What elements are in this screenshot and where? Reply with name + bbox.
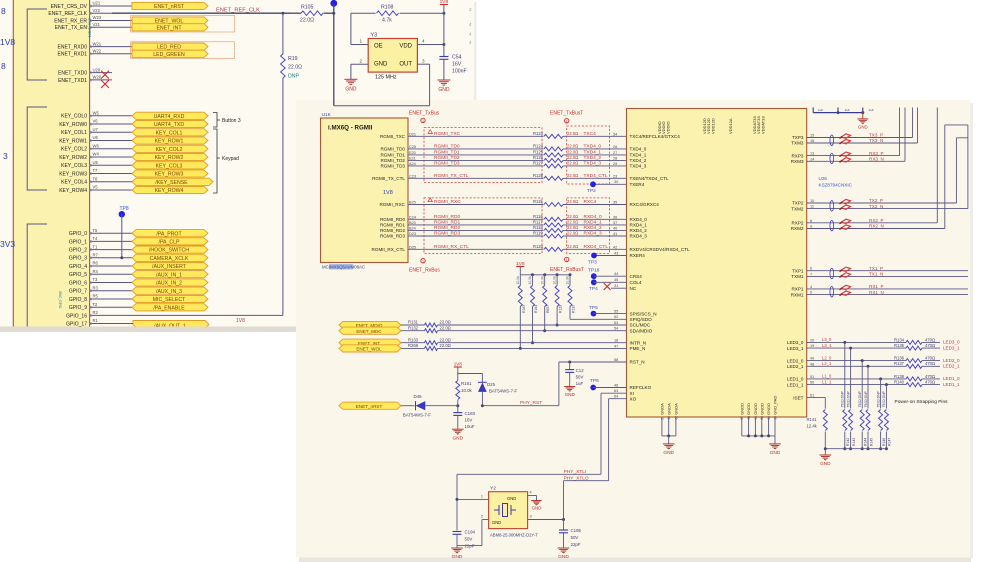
svg-text:GPIO_4: GPIO_4 bbox=[69, 264, 87, 270]
diff pair TX3_P/TX3_N wires from U26 bbox=[807, 137, 868, 139]
svg-text:D45: D45 bbox=[414, 394, 423, 399]
wire TX3_P to top bbox=[868, 137, 913, 139]
svg-text:CRS4: CRS4 bbox=[630, 274, 643, 279]
svg-text:16: 16 bbox=[810, 139, 814, 143]
wire RX1_P to sheet edge bbox=[868, 288, 968, 290]
svg-text:ENET_WOL: ENET_WOL bbox=[356, 347, 382, 352]
svg-text:L2_1: L2_1 bbox=[822, 361, 832, 366]
svg-text:ENET_RxBusT: ENET_RxBusT bbox=[550, 267, 584, 273]
svg-text:C195: C195 bbox=[571, 528, 582, 533]
svg-text:KEY_COL2: KEY_COL2 bbox=[156, 147, 183, 153]
svg-text:ABM8-25.000MHZ-D2Y-T: ABM8-25.000MHZ-D2Y-T bbox=[490, 533, 538, 538]
net flag MIC_SELECT bbox=[132, 295, 208, 302]
resistor R133 22.0ohm bbox=[401, 342, 425, 344]
svg-text:RGMII_TD3: RGMII_TD3 bbox=[380, 164, 405, 169]
svg-text:R120: R120 bbox=[533, 244, 544, 249]
svg-text:R108: R108 bbox=[381, 5, 394, 11]
svg-text:58: 58 bbox=[614, 358, 618, 362]
svg-text:GND: GND bbox=[507, 496, 516, 501]
svg-text:1: 1 bbox=[422, 119, 424, 123]
svg-text:R137: R137 bbox=[894, 361, 905, 366]
svg-text:4: 4 bbox=[469, 40, 472, 45]
svg-text:3: 3 bbox=[3, 151, 8, 161]
svg-text:ENET_TX_EN: ENET_TX_EN bbox=[55, 25, 88, 31]
svg-text:RST_N: RST_N bbox=[630, 360, 645, 365]
svg-text:U5: U5 bbox=[93, 160, 99, 165]
svg-text:1: 1 bbox=[481, 495, 483, 499]
ESD mark on RX3_P bbox=[841, 152, 850, 156]
svg-text:8: 8 bbox=[1, 61, 6, 71]
svg-text:R6: R6 bbox=[93, 261, 99, 266]
svg-text:/KEY_SENSE: /KEY_SENSE bbox=[155, 180, 188, 186]
svg-text:W23: W23 bbox=[93, 15, 102, 20]
svg-text:22.0Ω: 22.0Ω bbox=[288, 65, 302, 71]
svg-text:TP18: TP18 bbox=[588, 268, 600, 274]
brace Button 3 bbox=[213, 113, 220, 128]
svg-text:RXD4_3: RXD4_3 bbox=[630, 234, 648, 239]
svg-text:W4: W4 bbox=[93, 152, 100, 157]
IC U1K i.MX6Q RGMII block bbox=[321, 118, 409, 263]
net flag KEY_ROW2 bbox=[132, 153, 208, 160]
svg-text:22.0Ω: 22.0Ω bbox=[567, 155, 578, 160]
svg-text:4: 4 bbox=[469, 32, 472, 37]
svg-text:XI: XI bbox=[630, 391, 634, 396]
svg-text:TP8: TP8 bbox=[120, 206, 129, 212]
wire RGMII_RD3 from U1K bbox=[416, 235, 544, 237]
svg-text:ENET_INT: ENET_INT bbox=[156, 25, 182, 31]
svg-text:50V: 50V bbox=[465, 537, 473, 542]
ground for C194 bbox=[456, 546, 458, 548]
svg-text:22.0Ω: 22.0Ω bbox=[567, 199, 578, 204]
svg-text:22.0Ω: 22.0Ω bbox=[440, 320, 451, 325]
svg-text:R127: R127 bbox=[533, 161, 544, 166]
svg-text:ENET_TXD0: ENET_TXD0 bbox=[58, 71, 87, 77]
svg-text:470Ω: 470Ω bbox=[925, 343, 935, 348]
svg-text:VDD: VDD bbox=[399, 44, 412, 50]
svg-text:RXD4_2: RXD4_2 bbox=[584, 225, 602, 231]
wire to net flag ENET_INT bbox=[112, 26, 132, 28]
wire RGMII_TD3 from U1K bbox=[416, 165, 544, 167]
net flag /AUX_INSERT bbox=[132, 262, 208, 269]
svg-text:8: 8 bbox=[810, 219, 812, 223]
svg-text:SWC_GPIO: SWC_GPIO bbox=[58, 291, 62, 309]
svg-text:22.0Ω: 22.0Ω bbox=[567, 144, 578, 149]
svg-text:LED3_1: LED3_1 bbox=[943, 345, 960, 350]
svg-text:GND: GND bbox=[663, 450, 674, 456]
svg-text:9: 9 bbox=[810, 225, 812, 229]
wire node to oscillator bbox=[333, 3, 335, 105]
svg-text:GPIO_17: GPIO_17 bbox=[66, 321, 87, 327]
svg-text:52: 52 bbox=[614, 315, 618, 319]
svg-text:V6: V6 bbox=[93, 119, 99, 124]
svg-text:MCIMX6Q5AVM08AC: MCIMX6Q5AVM08AC bbox=[322, 265, 365, 270]
oscillator Y3 125 MHz bbox=[368, 39, 417, 73]
svg-text:PME_N: PME_N bbox=[630, 346, 646, 351]
svg-text:RX1_P: RX1_P bbox=[869, 284, 884, 289]
svg-text:64: 64 bbox=[614, 395, 618, 399]
net label ENET_REF_CLK and wire bbox=[112, 12, 290, 14]
pin 42 stub into U26 bbox=[610, 248, 627, 250]
net flag LED_RED bbox=[132, 43, 208, 50]
svg-text:50: 50 bbox=[810, 381, 814, 385]
wire ENET_INT to U26 pin 18 bbox=[438, 342, 627, 344]
svg-text:65: 65 bbox=[773, 416, 777, 420]
wire to net flag CAMERA_XCLK bbox=[112, 257, 132, 259]
svg-text:1: 1 bbox=[566, 258, 568, 262]
wire RGMII_RXC from U1K bbox=[416, 204, 544, 206]
pin 29 stub into U26 bbox=[610, 165, 627, 167]
net flag /PA_PROT bbox=[132, 230, 208, 237]
svg-text:R147: R147 bbox=[888, 438, 892, 446]
svg-text:62: 62 bbox=[674, 416, 678, 420]
ground for C12 bbox=[564, 386, 575, 388]
resistor R105 22.0ohm bbox=[290, 12, 301, 14]
ESD mark on RX3_N bbox=[841, 158, 850, 162]
wire RX2_P corner bbox=[868, 222, 937, 224]
svg-text:R136: R136 bbox=[894, 356, 905, 361]
svg-text:R143: R143 bbox=[852, 438, 856, 446]
wire TX1_P to sheet edge bbox=[868, 270, 968, 272]
svg-text:R146: R146 bbox=[882, 438, 886, 446]
svg-text:12.4k: 12.4k bbox=[807, 424, 818, 429]
svg-text:RGMII_TD2: RGMII_TD2 bbox=[434, 155, 460, 161]
svg-text:GPIO_2: GPIO_2 bbox=[69, 248, 87, 254]
ground for strapping rail bbox=[819, 454, 831, 456]
svg-text:ENET_RXD0: ENET_RXD0 bbox=[58, 45, 88, 51]
svg-text:TP4: TP4 bbox=[589, 286, 598, 292]
svg-text:R130: R130 bbox=[572, 305, 576, 313]
svg-text:1V8: 1V8 bbox=[383, 190, 393, 196]
svg-text:R135: R135 bbox=[894, 343, 905, 348]
svg-text:750Ω DNP: 750Ω DNP bbox=[841, 390, 845, 407]
harness box ENET_TxBus (left) bbox=[424, 128, 542, 183]
svg-text:RGMII_TD1: RGMII_TD1 bbox=[380, 153, 405, 158]
net flag UART4_RXD bbox=[132, 112, 208, 119]
no-connect X on ENET_TXD0 bbox=[101, 71, 109, 79]
svg-text:W6: W6 bbox=[93, 144, 100, 149]
svg-text:D25: D25 bbox=[487, 382, 496, 387]
net flag /KEY_SENSE bbox=[132, 178, 213, 185]
pull-up resistor R164 10.0k bbox=[532, 275, 534, 286]
svg-text:U26: U26 bbox=[819, 176, 828, 181]
svg-text:KEY_COL1: KEY_COL1 bbox=[61, 130, 87, 136]
crystal Y2 box bbox=[489, 492, 528, 529]
svg-text:KEY_COL4: KEY_COL4 bbox=[61, 180, 87, 186]
svg-text:22.0Ω: 22.0Ω bbox=[567, 214, 578, 219]
wire RGMII_TD0 from U1K bbox=[416, 148, 544, 150]
ESD mark on RX2_N bbox=[841, 225, 850, 229]
svg-text:C54: C54 bbox=[452, 55, 462, 61]
svg-text:46: 46 bbox=[614, 383, 618, 387]
svg-text:RGMII_RD0: RGMII_RD0 bbox=[380, 217, 405, 222]
wire LED pin 51 (LED1_0) bbox=[807, 378, 906, 380]
wire to net flag /PA_ENABLE bbox=[112, 306, 132, 308]
svg-text:ENET_nRST: ENET_nRST bbox=[356, 404, 383, 409]
svg-text:OUT: OUT bbox=[399, 62, 412, 68]
svg-text:TXM3: TXM3 bbox=[791, 141, 804, 146]
resistor R141 12.4k (ISET) bbox=[807, 397, 826, 399]
svg-text:RXD4_0: RXD4_0 bbox=[584, 214, 602, 220]
svg-text:RGMII_TD0: RGMII_TD0 bbox=[434, 144, 460, 150]
group bracket KEY bbox=[27, 107, 47, 190]
diff pair RX3_P/RX3_N wires from U26 bbox=[807, 155, 868, 157]
wire to net flag /HOOK_SWITCH bbox=[112, 249, 132, 251]
svg-text:63: 63 bbox=[614, 389, 618, 393]
svg-text:470Ω: 470Ω bbox=[925, 380, 935, 385]
svg-text:45: 45 bbox=[614, 278, 618, 282]
svg-text:10.0k: 10.0k bbox=[553, 276, 557, 285]
wire to net flag LED_RED bbox=[112, 46, 132, 48]
svg-text:Y2: Y2 bbox=[490, 486, 496, 492]
wire to net flag /AUX_IN_1 bbox=[112, 273, 132, 275]
svg-text:LED3_0: LED3_0 bbox=[787, 340, 804, 345]
right schematic sheet bbox=[299, 558, 971, 562]
wire RGMII_TD2 from U1K bbox=[416, 159, 544, 161]
svg-text:L3_0: L3_0 bbox=[822, 337, 832, 342]
svg-text:RGMII_RD2: RGMII_RD2 bbox=[434, 225, 460, 231]
svg-text:B25: B25 bbox=[409, 201, 416, 205]
wire to net flag UART4_RXD bbox=[112, 115, 132, 117]
common-mode choke ellipse for RX2_P/RX2_N bbox=[830, 220, 834, 230]
highlight box around ENET_WOL/ENET_INT flags bbox=[131, 16, 235, 33]
svg-text:D21: D21 bbox=[409, 132, 416, 136]
svg-text:22.0Ω: 22.0Ω bbox=[567, 225, 578, 230]
svg-text:TXD4_1: TXD4_1 bbox=[584, 150, 602, 156]
svg-text:ENET_RxBus: ENET_RxBus bbox=[409, 268, 440, 274]
net flag ENET_nRST (PHY reset) bbox=[339, 402, 401, 409]
ground symbol GNDD bbox=[769, 443, 781, 445]
ESD mark on RX1_P bbox=[841, 285, 850, 289]
wire RGMII_TX_CTL from U1K bbox=[416, 177, 544, 179]
svg-text:VDD12A: VDD12A bbox=[728, 118, 733, 134]
svg-text:26: 26 bbox=[613, 145, 617, 149]
svg-text:4: 4 bbox=[530, 491, 532, 495]
svg-text:GND: GND bbox=[770, 450, 781, 456]
svg-text:VDDAT33: VDDAT33 bbox=[760, 116, 765, 134]
svg-text:/HOOK_SWITCH: /HOOK_SWITCH bbox=[149, 248, 189, 254]
ESD mark on TX2_P bbox=[841, 199, 850, 203]
svg-text:22.0Ω: 22.0Ω bbox=[567, 131, 578, 136]
svg-text:ENET_REF_CLK: ENET_REF_CLK bbox=[48, 11, 87, 17]
crystal Y2 circuit: left vertical bbox=[456, 474, 458, 530]
svg-text:GNDD: GNDD bbox=[739, 403, 744, 415]
wire RX1_N to sheet edge bbox=[868, 294, 968, 296]
ground for Y3 pin 2 bbox=[344, 78, 357, 80]
svg-text:REFCLKO: REFCLKO bbox=[630, 385, 652, 390]
wire to net flag /PA_CLP bbox=[112, 240, 132, 242]
svg-text:22.0Ω: 22.0Ω bbox=[440, 325, 451, 330]
svg-text:R116: R116 bbox=[533, 214, 543, 219]
svg-text:RXM3: RXM3 bbox=[791, 159, 804, 164]
svg-text:ENET_nRST: ENET_nRST bbox=[154, 4, 185, 10]
ESD mark on RX2_P bbox=[841, 219, 850, 223]
svg-text:RGMII_TD0: RGMII_TD0 bbox=[380, 147, 405, 152]
net label PHY_XTLO and wire bbox=[564, 480, 609, 482]
wire to net flag KEY_ROW3 bbox=[112, 173, 132, 175]
svg-text:R145: R145 bbox=[869, 438, 873, 446]
svg-text:Y3: Y3 bbox=[371, 33, 378, 39]
svg-text:GNDD: GNDD bbox=[753, 403, 758, 415]
resistor R108 4.7k bbox=[351, 12, 376, 14]
svg-text:37: 37 bbox=[613, 221, 617, 225]
svg-text:R163: R163 bbox=[522, 305, 526, 313]
svg-text:RGMII_RD1: RGMII_RD1 bbox=[434, 220, 460, 226]
pin 26 stub into U26 bbox=[610, 148, 627, 150]
wire to net flag KEY_ROW4 bbox=[112, 189, 132, 191]
svg-text:1V8: 1V8 bbox=[440, 0, 449, 5]
svg-text:RXP1: RXP1 bbox=[791, 287, 803, 292]
svg-text:INTR_N: INTR_N bbox=[630, 340, 647, 345]
svg-text:GPIO_5: GPIO_5 bbox=[69, 272, 87, 278]
ESD mark on TX2_N bbox=[841, 205, 850, 209]
resistor R147 strap bbox=[885, 385, 887, 409]
svg-text:RXD4_1: RXD4_1 bbox=[584, 220, 602, 226]
svg-text:KEY_COL0: KEY_COL0 bbox=[61, 114, 87, 120]
pull-up resistor R129 10.0k bbox=[556, 275, 558, 286]
svg-text:T2: T2 bbox=[93, 302, 99, 307]
svg-text:ENET_MDC: ENET_MDC bbox=[356, 329, 382, 334]
clipped net flag on GPIO_17 row bbox=[133, 321, 209, 329]
wire RGMII_TD1 from U1K bbox=[416, 154, 544, 156]
svg-text:41: 41 bbox=[613, 232, 617, 236]
svg-text:CAMERA_XCLK: CAMERA_XCLK bbox=[150, 256, 189, 262]
svg-text:GND: GND bbox=[858, 124, 868, 129]
wire RX2_N corner bbox=[868, 228, 945, 230]
wire to net flag /KEY_SENSE bbox=[112, 181, 132, 183]
svg-text:RGMII_TXC: RGMII_TXC bbox=[434, 131, 461, 137]
svg-text:D23: D23 bbox=[409, 232, 416, 236]
wire ENET_MDIO to U26 pin 53 bbox=[438, 324, 627, 326]
svg-text:22.0Ω: 22.0Ω bbox=[300, 18, 314, 24]
svg-text:DNP: DNP bbox=[288, 74, 299, 80]
svg-text:5: 5 bbox=[810, 291, 812, 295]
svg-text:GPIO_16: GPIO_16 bbox=[66, 313, 87, 319]
svg-text:TXD4_1: TXD4_1 bbox=[630, 153, 647, 158]
ground for C183 bbox=[452, 428, 464, 430]
svg-text:KEY_ROW2: KEY_ROW2 bbox=[59, 155, 87, 161]
net flag KEY_COL3 bbox=[132, 162, 208, 169]
net flag /PA_CLP bbox=[132, 238, 208, 245]
svg-text:RX3_N: RX3_N bbox=[869, 157, 884, 162]
pull-up resistor R163 10.0k bbox=[519, 275, 521, 286]
svg-text:30: 30 bbox=[614, 180, 618, 184]
test point TP2 on TXER4 bbox=[593, 183, 627, 185]
ground rail for GNDD pins bbox=[741, 417, 743, 436]
svg-text:GPIO_3: GPIO_3 bbox=[69, 256, 87, 262]
svg-text:54: 54 bbox=[614, 327, 618, 331]
svg-text:R133: R133 bbox=[408, 337, 419, 342]
svg-text:R129: R129 bbox=[559, 305, 563, 313]
svg-text:RGMII_TXC: RGMII_TXC bbox=[380, 134, 406, 139]
wire RGMII_RD0 from U1K bbox=[416, 218, 544, 220]
svg-text:RGMII_RD3: RGMII_RD3 bbox=[434, 231, 460, 237]
svg-text:COL4: COL4 bbox=[630, 280, 642, 285]
svg-text:RGMII_RD3: RGMII_RD3 bbox=[380, 234, 405, 239]
svg-text:GPIO_1: GPIO_1 bbox=[69, 239, 87, 245]
svg-text:LED2_1: LED2_1 bbox=[787, 364, 804, 369]
ESD mark on TX3_N bbox=[841, 139, 850, 143]
svg-text:TX1_P: TX1_P bbox=[869, 266, 883, 271]
net label PHY_XTLI and wire bbox=[457, 473, 601, 475]
svg-text:XO: XO bbox=[630, 396, 637, 401]
svg-text:V22: V22 bbox=[93, 8, 101, 13]
pin 36 stub into U26 bbox=[610, 218, 627, 220]
IC U1 (left CPU block, clipped) bbox=[13, 0, 89, 328]
wire to net flag /AUX_IN_2 bbox=[112, 282, 132, 284]
svg-text:GND: GND bbox=[438, 87, 450, 93]
svg-text:2: 2 bbox=[359, 58, 362, 63]
svg-text:ENET_TxBus: ENET_TxBus bbox=[409, 111, 440, 117]
svg-text:R124: R124 bbox=[533, 144, 544, 149]
net flag UART4_TXD bbox=[132, 120, 208, 127]
svg-text:RXD4_0: RXD4_0 bbox=[630, 217, 648, 222]
svg-text:PHY_XTLI: PHY_XTLI bbox=[564, 469, 587, 475]
svg-text:ENET_REF_CLK: ENET_REF_CLK bbox=[216, 7, 260, 13]
svg-text:SCL/MDC: SCL/MDC bbox=[630, 323, 651, 328]
svg-text:C23: C23 bbox=[409, 174, 416, 178]
svg-text:RXD4_CTL: RXD4_CTL bbox=[584, 244, 609, 250]
wire RGMII_TXC from U1K bbox=[416, 135, 544, 137]
svg-text:i.MX6Q - RGMII: i.MX6Q - RGMII bbox=[328, 125, 373, 132]
ESD mark on TX1_P bbox=[841, 267, 850, 271]
svg-text:2: 2 bbox=[469, 7, 472, 12]
net flag CAMERA_XCLK bbox=[132, 254, 208, 261]
svg-text:22.0Ω: 22.0Ω bbox=[567, 231, 578, 236]
svg-text:KEY_COL3: KEY_COL3 bbox=[61, 163, 87, 169]
svg-text:10.0k: 10.0k bbox=[516, 276, 520, 285]
svg-text:12: 12 bbox=[667, 416, 671, 420]
wire OE pin to R108 bbox=[350, 13, 352, 44]
svg-text:22.0Ω: 22.0Ω bbox=[567, 244, 578, 249]
diff pair RX1_P/RX1_N wires from U26 bbox=[807, 288, 868, 290]
svg-text:TXEN4/TXD4_CTL: TXEN4/TXD4_CTL bbox=[630, 176, 670, 181]
svg-text:RXDV4/CRSDV4/RXD4_CTL: RXDV4/CRSDV4/RXD4_CTL bbox=[630, 247, 690, 252]
svg-text:RXP2: RXP2 bbox=[791, 221, 803, 226]
svg-text:R138: R138 bbox=[894, 374, 905, 379]
svg-text:15: 15 bbox=[810, 134, 814, 138]
svg-text:GNDD: GNDD bbox=[759, 403, 764, 415]
svg-text:TXP1: TXP1 bbox=[792, 268, 804, 273]
ESD mark on TX3_P bbox=[841, 134, 850, 138]
net label PHY_RST and wire to RST_N bbox=[482, 405, 559, 407]
svg-text:R657: R657 bbox=[546, 305, 550, 313]
crystal symbol inside Y2 bbox=[499, 505, 511, 515]
svg-text:3: 3 bbox=[422, 58, 425, 63]
svg-text:L3_1: L3_1 bbox=[822, 343, 832, 348]
wire ENET_MDC to U26 pin 54 bbox=[438, 330, 627, 332]
svg-text:T6: T6 bbox=[93, 177, 99, 182]
svg-text:RGMII_TX_CTL: RGMII_TX_CTL bbox=[434, 173, 469, 179]
resistor R132 22.0ohm bbox=[401, 330, 425, 332]
svg-text:GNDD: GNDD bbox=[766, 403, 771, 415]
svg-text:W5: W5 bbox=[93, 111, 100, 116]
IC U26 KSZ8794 PHY block bbox=[627, 109, 807, 418]
wire TX2_P corner bbox=[868, 202, 956, 204]
svg-text:27: 27 bbox=[613, 151, 617, 155]
svg-text:35: 35 bbox=[613, 201, 617, 205]
svg-text:RXD4_2: RXD4_2 bbox=[630, 228, 648, 233]
svg-text:22.0Ω: 22.0Ω bbox=[440, 337, 451, 342]
svg-text:38: 38 bbox=[747, 416, 751, 420]
svg-text:T1: T1 bbox=[93, 244, 99, 249]
svg-text:LED2_0: LED2_0 bbox=[943, 358, 960, 363]
svg-text:TXD4_0: TXD4_0 bbox=[630, 147, 647, 152]
svg-text:GND: GND bbox=[345, 87, 357, 93]
svg-text:18: 18 bbox=[614, 339, 618, 343]
svg-text:R144: R144 bbox=[864, 438, 868, 446]
highlight box around LED_RED/LED_GREEN flags bbox=[131, 42, 235, 59]
svg-text:R115: R115 bbox=[533, 199, 543, 204]
